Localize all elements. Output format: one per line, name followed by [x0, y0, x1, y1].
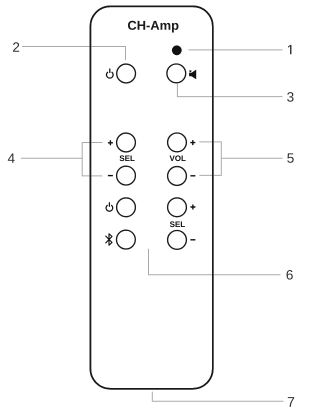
SEL label (left) [120, 155, 135, 161]
callout 4 bracket (SEL group) [82, 143, 102, 176]
label 1 [288, 45, 291, 54]
minus sign (preset) [190, 239, 195, 241]
VOL - button [168, 167, 187, 186]
SEL label (right) [170, 221, 185, 227]
callout 5 leader line [221, 157, 282, 159]
callout 5 bracket (VOL group) [199, 142, 221, 176]
plus sign (SEL) [108, 140, 113, 145]
label 4 [8, 154, 15, 163]
remote body outline repaint [90, 6, 212, 389]
callout 6 line (button group to label 6) [149, 249, 281, 275]
power button (lower) [117, 198, 136, 217]
bluetooth button [117, 230, 136, 249]
callout 1 line (LED to label 1) [189, 49, 283, 51]
callout 4 leader line [21, 157, 82, 159]
VOL label [170, 155, 186, 161]
preset SEL - button [168, 231, 187, 250]
label 7 [288, 397, 294, 407]
LED indicator [172, 45, 182, 55]
VOL + button [168, 133, 187, 152]
power icon (top) [106, 69, 113, 78]
plus sign (preset) [190, 205, 195, 210]
callout 2 line (label 2 to power button) [22, 47, 126, 61]
power button (top) [117, 64, 136, 83]
title CH-Amp [128, 21, 179, 33]
remote body outline [90, 6, 212, 389]
label 6 [287, 270, 293, 280]
SEL - button [117, 166, 136, 185]
SEL + button [117, 133, 136, 152]
callout 3 line (mute button to label 3) [177, 84, 282, 97]
minus sign (SEL) [108, 175, 113, 177]
mute icon [189, 70, 196, 80]
bluetooth icon [106, 234, 112, 245]
power icon (lower) [106, 203, 113, 212]
callout 7 line (bottom edge to label 7) [152, 392, 283, 402]
label 2 [13, 42, 19, 52]
label 5 [287, 153, 293, 162]
plus sign (VOL) [190, 140, 195, 145]
preset SEL + button [168, 198, 187, 217]
label 3 [287, 92, 293, 102]
mute button [167, 64, 186, 83]
minus sign (VOL) [190, 175, 195, 177]
